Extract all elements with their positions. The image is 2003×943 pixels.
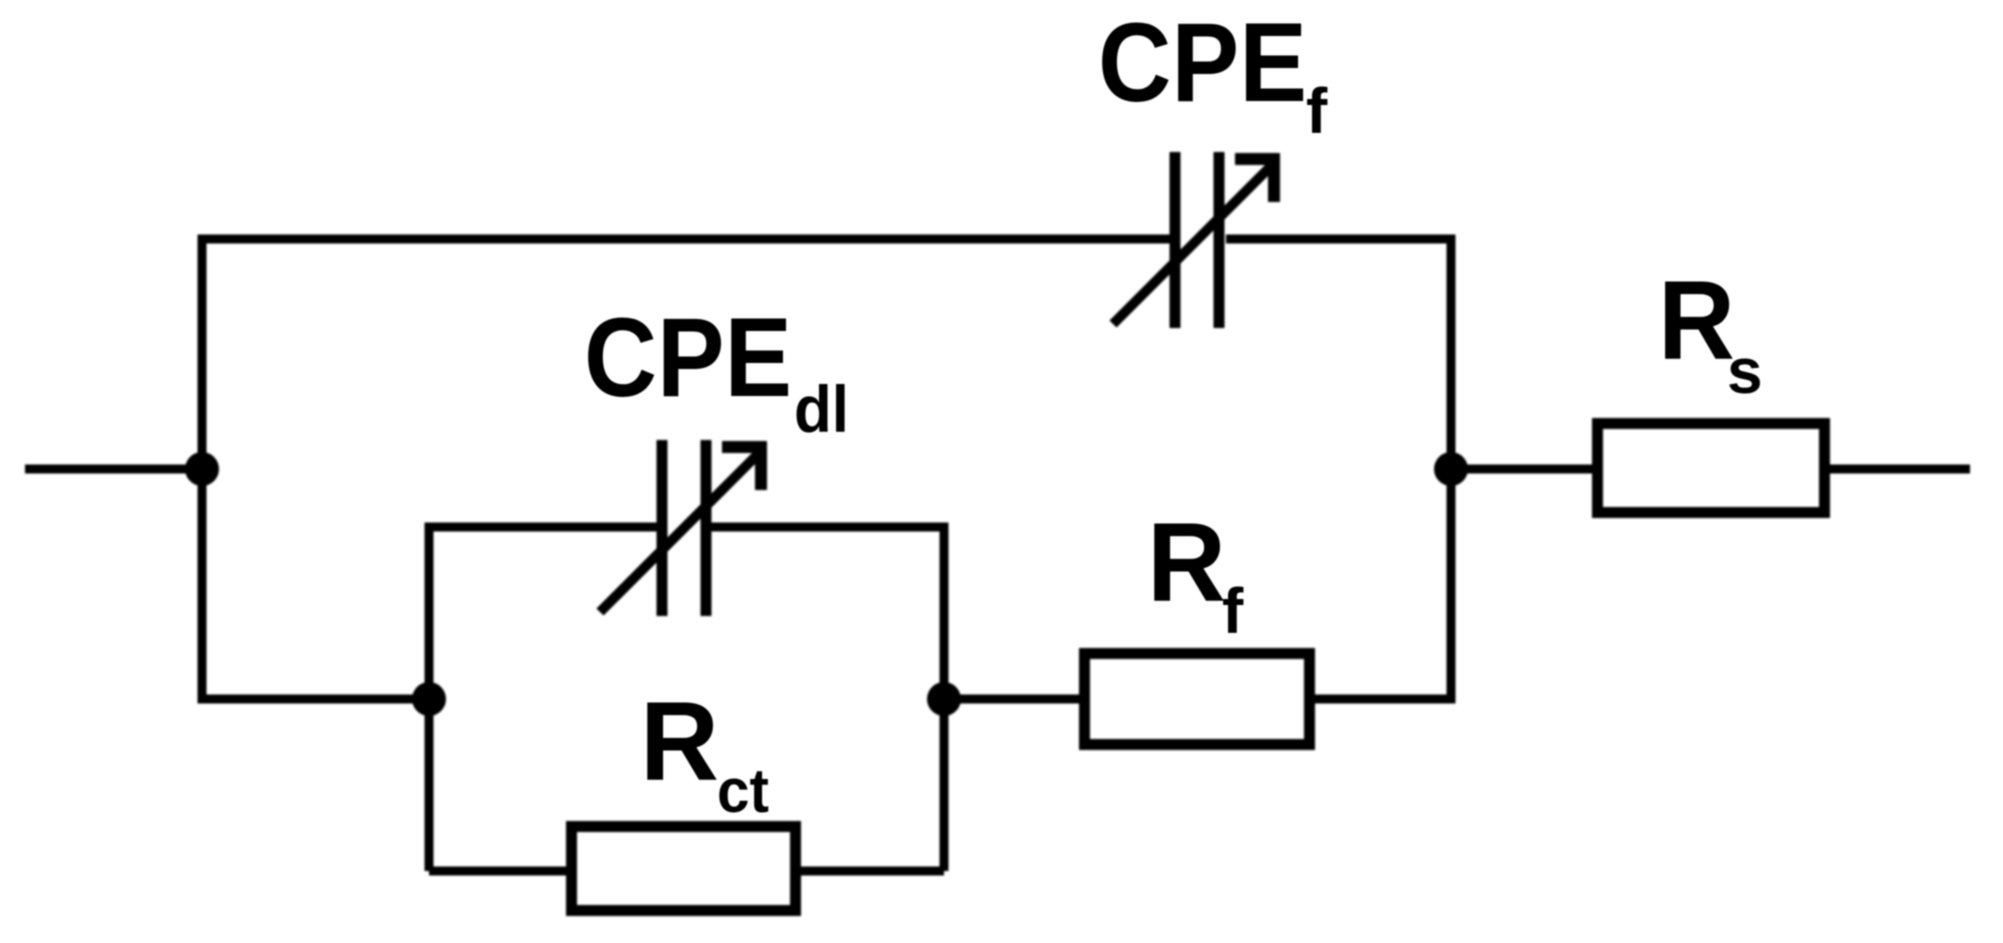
- node A junction dot: [185, 452, 219, 486]
- CPE_f arrowhead: [1235, 159, 1274, 202]
- wire node D to R_f: [944, 695, 1087, 704]
- CPE_f arrow shaft: [1113, 163, 1274, 324]
- wire inner box left vertical and top rail to CPE_dl: [429, 527, 657, 871]
- wire inner bottom rail left to R_ct: [429, 867, 574, 876]
- svg-text:f: f: [1306, 75, 1328, 147]
- wire node B to R_s: [1451, 465, 1600, 474]
- resistor R_ct: [572, 827, 796, 911]
- CPE_dl arrowhead: [722, 447, 761, 490]
- svg-text:s: s: [1727, 335, 1763, 407]
- svg-text:R: R: [1147, 500, 1226, 625]
- resistor R_f: [1085, 654, 1310, 745]
- CPE_f right plate: [1214, 152, 1225, 328]
- wire left terminal: [25, 465, 202, 474]
- wire inner box top rail right of CPE_dl and right vertical: [711, 527, 944, 871]
- svg-text:R: R: [640, 679, 719, 804]
- node B junction dot: [1434, 452, 1468, 486]
- CPE CPE_f (constant phase element): [1113, 152, 1274, 328]
- svg-text:ct: ct: [717, 757, 769, 826]
- CPE CPE_dl (constant phase element): [600, 440, 761, 616]
- wire inner bottom rail right of R_ct: [793, 867, 944, 876]
- wire top rail right of CPE_f down right side to R_f: [1226, 239, 1451, 699]
- resistor R_s: [1598, 424, 1825, 513]
- svg-text:R: R: [1658, 258, 1735, 383]
- CPE_dl arrow shaft: [600, 451, 761, 612]
- svg-text:dl: dl: [794, 372, 849, 446]
- node D junction dot: [927, 682, 961, 716]
- CPE_f left plate: [1170, 152, 1181, 328]
- wire outer loop: bottom-left, left vertical, top rail to CPE_f left plate: [202, 239, 1170, 699]
- svg-text:CPE: CPE: [584, 295, 792, 420]
- CPE_dl left plate: [657, 440, 668, 616]
- svg-text:CPE: CPE: [1098, 0, 1307, 125]
- CPE_dl right plate: [701, 440, 712, 616]
- node C junction dot: [412, 682, 446, 716]
- wire right terminal: [1823, 465, 1970, 474]
- svg-text:f: f: [1222, 575, 1244, 647]
